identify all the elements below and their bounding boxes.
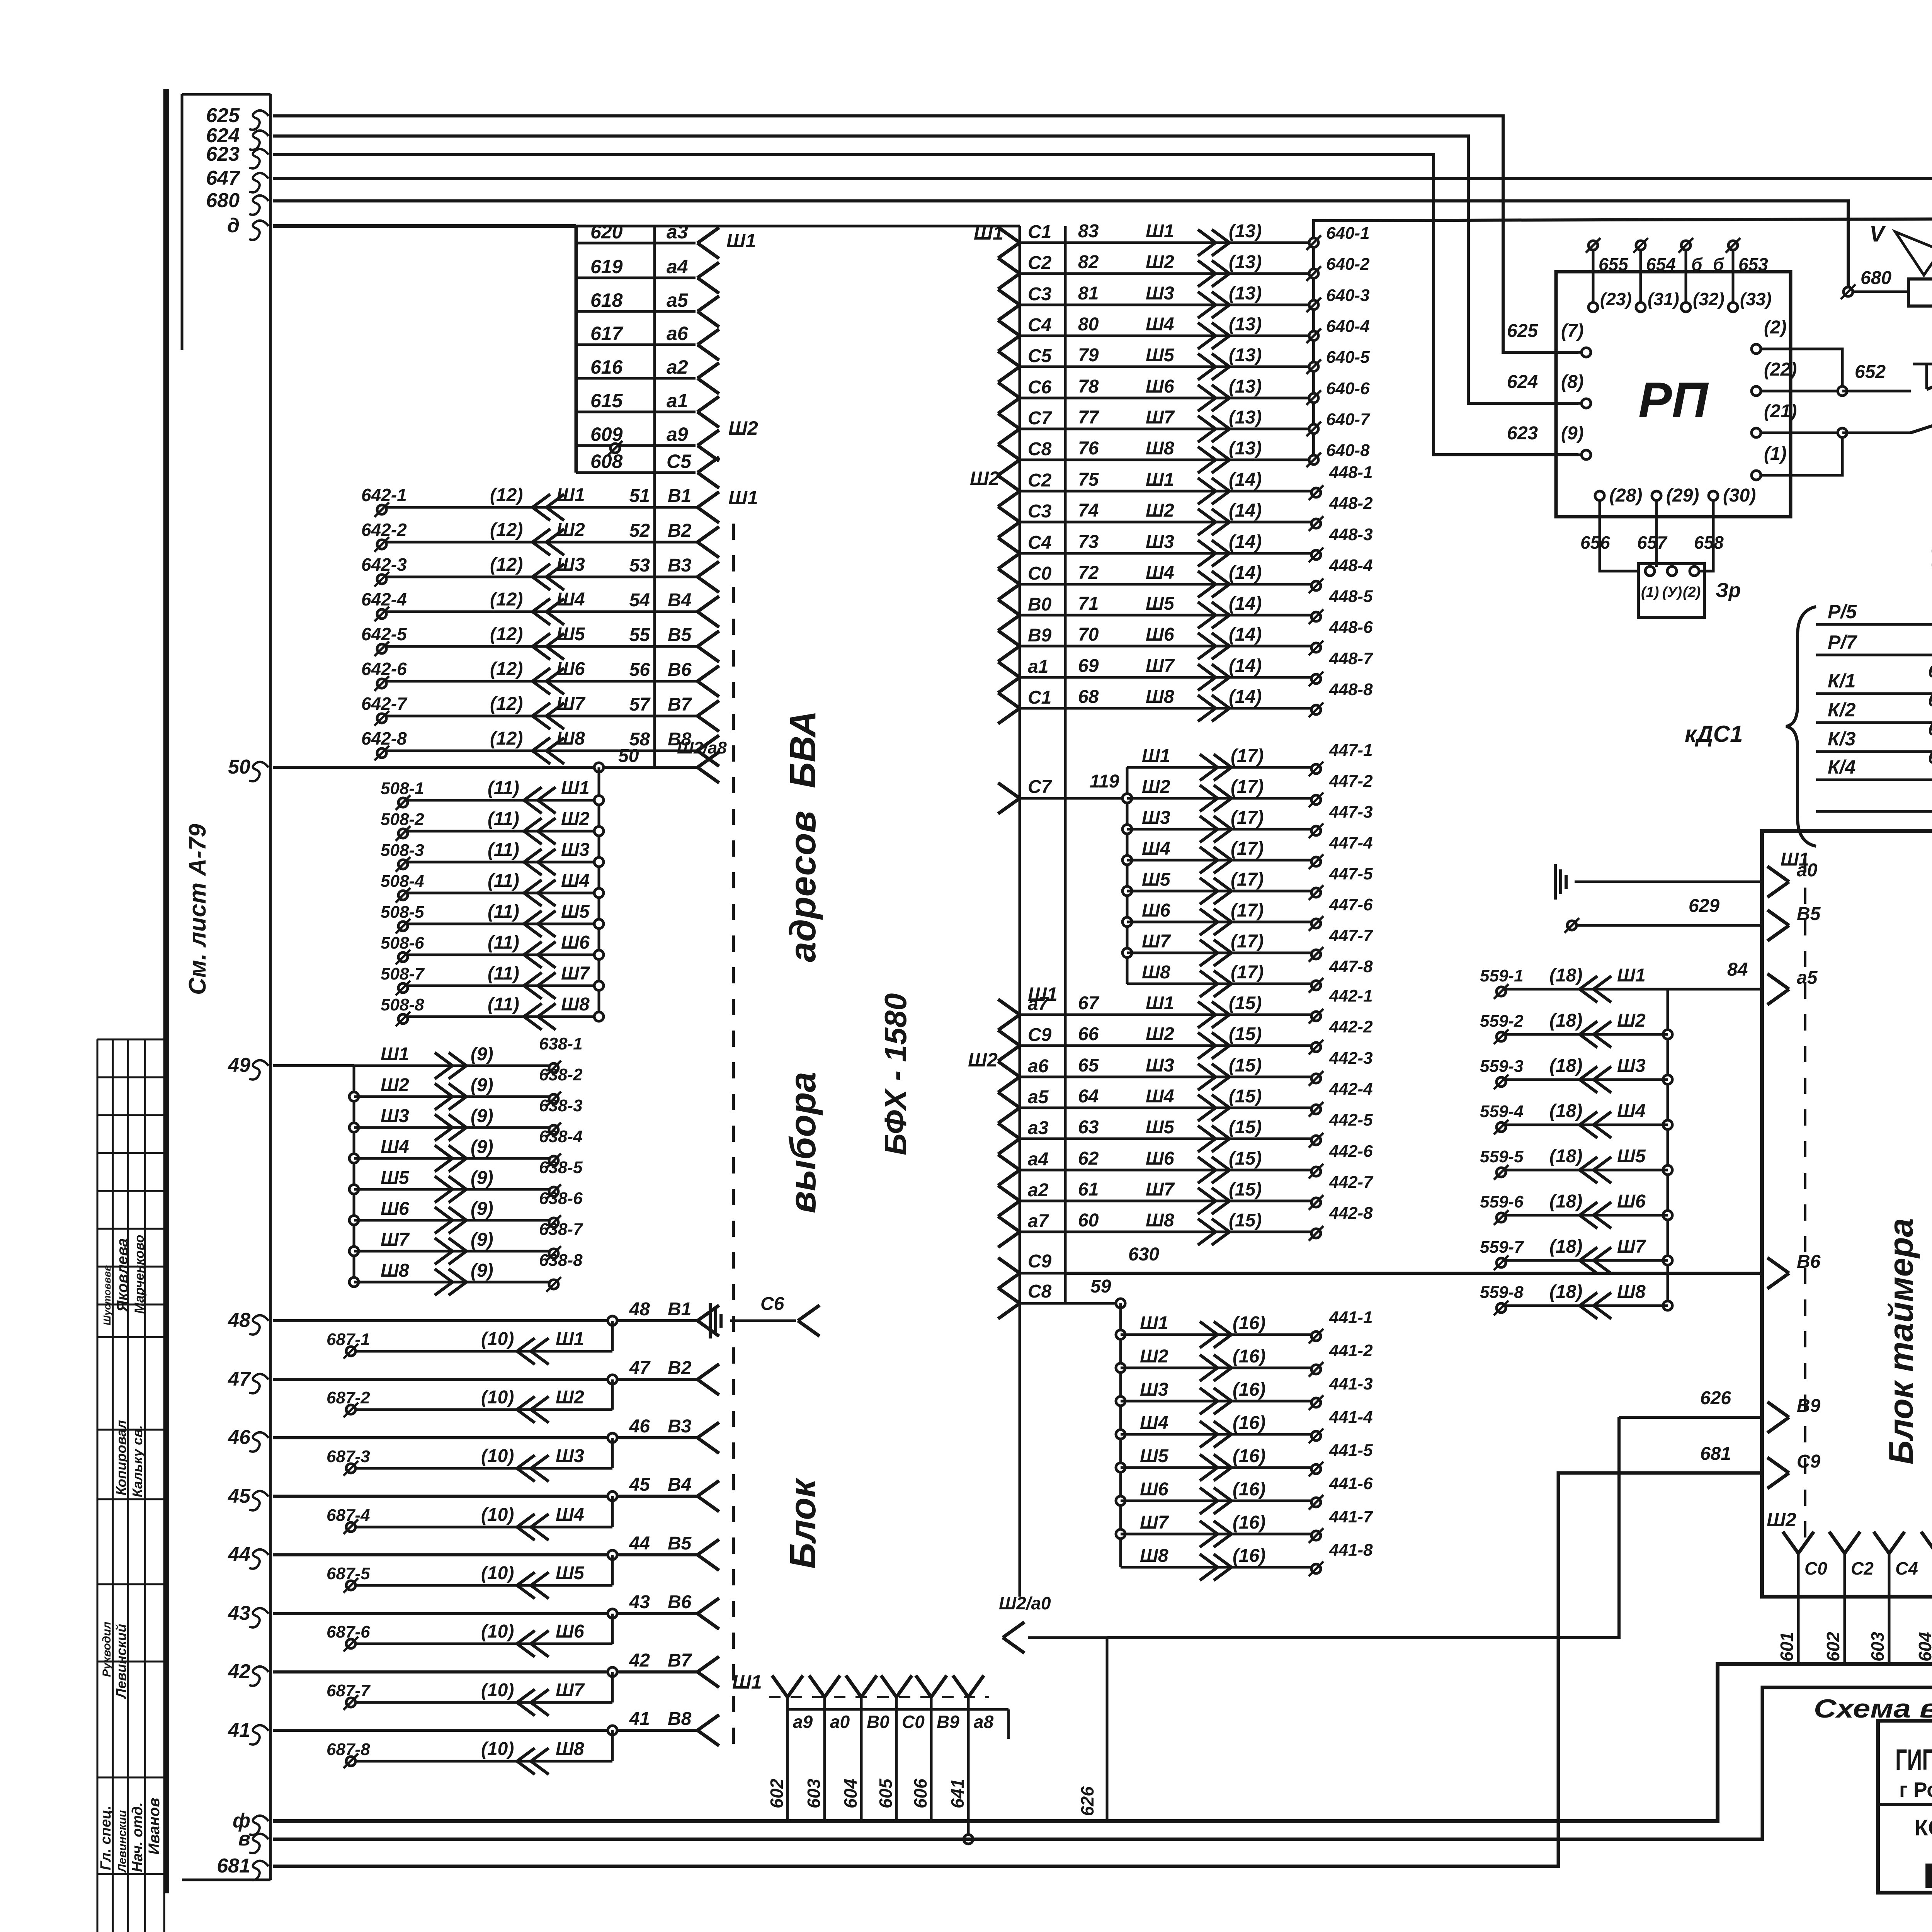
svg-text:Ш5: Ш5 xyxy=(381,1168,410,1188)
wire 647 long xyxy=(273,179,1932,493)
svg-text:624: 624 xyxy=(1507,372,1538,392)
svg-text:653: 653 xyxy=(1738,254,1768,274)
svg-text:79: 79 xyxy=(1078,345,1099,366)
svg-text:(12): (12) xyxy=(490,624,523,645)
svg-text:К/4: К/4 xyxy=(1828,756,1855,778)
svg-text:КОМПРЕССОРНАЯ: КОМПРЕССОРНАЯ xyxy=(1915,1815,1932,1840)
signature table columns xyxy=(97,1039,99,1932)
svg-text:В2: В2 xyxy=(668,1358,692,1378)
svg-text:Ш4: Ш4 xyxy=(1617,1101,1646,1121)
svg-text:выбора: выбора xyxy=(782,1072,823,1213)
row 640-2 C2 xyxy=(998,258,1020,274)
svg-text:Ш2: Ш2 xyxy=(1142,777,1170,797)
svg-text:638-7: 638-7 xyxy=(539,1220,583,1239)
svg-text:Ш4: Ш4 xyxy=(1146,1086,1174,1107)
svg-text:Ш6: Ш6 xyxy=(556,1621,584,1642)
svg-text:(15): (15) xyxy=(1229,993,1262,1014)
svg-text:606: 606 xyxy=(910,1779,930,1808)
svg-text:(14): (14) xyxy=(1229,563,1262,583)
stub а8/641 xyxy=(953,1675,968,1697)
svg-text:508-6: 508-6 xyxy=(381,934,424,952)
svg-text:(11): (11) xyxy=(488,840,519,860)
row 616/а2 xyxy=(576,377,696,380)
svg-text:78: 78 xyxy=(1078,376,1099,397)
svg-text:559-3: 559-3 xyxy=(1480,1057,1524,1076)
svg-text:Ш2: Ш2 xyxy=(1767,1509,1796,1531)
svg-text:623: 623 xyxy=(206,143,240,165)
svg-text:В6: В6 xyxy=(668,1592,692,1612)
svg-text:441-2: 441-2 xyxy=(1329,1341,1373,1360)
stub С0/601 xyxy=(1783,1532,1798,1553)
svg-text:(16): (16) xyxy=(1233,1379,1265,1400)
svg-text:642-8: 642-8 xyxy=(361,728,407,748)
svg-text:С4: С4 xyxy=(1028,532,1051,553)
svg-text:680: 680 xyxy=(206,189,240,212)
svg-text:44: 44 xyxy=(629,1533,650,1554)
bus 508 xyxy=(598,767,600,1016)
bus 447 xyxy=(1126,767,1129,984)
svg-text:642-2: 642-2 xyxy=(361,520,407,540)
row 441-1 xyxy=(1116,1330,1125,1339)
svg-text:Ш1: Ш1 xyxy=(1146,469,1174,490)
row 608/С5 xyxy=(576,471,696,474)
svg-text:638-5: 638-5 xyxy=(539,1158,583,1177)
svg-text:(23): (23) xyxy=(1600,289,1632,309)
svg-text:508-3: 508-3 xyxy=(381,841,424,860)
BTr pin V5 wire 629 xyxy=(1767,910,1789,925)
svg-text:623: 623 xyxy=(1507,423,1538,444)
svg-text:Ш1: Ш1 xyxy=(381,1044,409,1065)
RP right pin (22) xyxy=(1752,386,1761,396)
relay block RP xyxy=(1556,272,1791,517)
RP bottom pin (29) xyxy=(1652,491,1661,500)
svg-text:(17): (17) xyxy=(1231,838,1264,859)
row 615/а1 xyxy=(576,411,696,413)
svg-text:43: 43 xyxy=(228,1602,250,1624)
svg-text:Ш2: Ш2 xyxy=(1617,1010,1646,1031)
svg-text:630: 630 xyxy=(1128,1244,1159,1265)
svg-text:Ш8: Ш8 xyxy=(1617,1282,1646,1302)
svg-text:559-4: 559-4 xyxy=(1480,1102,1524,1121)
RP left pin (9) xyxy=(1582,450,1591,459)
svg-text:442-3: 442-3 xyxy=(1329,1049,1373,1068)
svg-text:508-2: 508-2 xyxy=(381,810,424,829)
svg-text:а4: а4 xyxy=(667,256,688,277)
svg-text:640-1: 640-1 xyxy=(1326,224,1370,243)
svg-text:(13): (13) xyxy=(1229,314,1262,335)
svg-text:Ш1: Ш1 xyxy=(556,485,585,505)
svg-text:(1): (1) xyxy=(1641,584,1659,600)
svg-text:(16): (16) xyxy=(1233,1413,1265,1433)
svg-text:а1: а1 xyxy=(667,390,688,412)
svg-text:(14): (14) xyxy=(1229,687,1262,707)
svg-text:82: 82 xyxy=(1078,252,1099,272)
svg-text:680: 680 xyxy=(1861,268,1891,288)
svg-text:559-8: 559-8 xyxy=(1480,1283,1524,1302)
svg-text:ГИПРОСТРОЙДОРМАШ: ГИПРОСТРОЙДОРМАШ xyxy=(1895,1743,1932,1776)
svg-text:Иванов: Иванов xyxy=(146,1798,163,1855)
row 638-1 xyxy=(354,1065,554,1067)
svg-text:Ш3: Ш3 xyxy=(1142,808,1170,828)
svg-text:626: 626 xyxy=(1077,1786,1097,1816)
stub а9/602 xyxy=(772,1675,787,1697)
svg-text:41: 41 xyxy=(228,1719,250,1742)
svg-text:а5: а5 xyxy=(667,289,689,311)
svg-text:(9): (9) xyxy=(471,1044,493,1065)
svg-text:626: 626 xyxy=(1700,1388,1731,1408)
svg-text:629: 629 xyxy=(1689,896,1719,916)
svg-text:45: 45 xyxy=(629,1475,651,1495)
svg-text:(13): (13) xyxy=(1229,438,1262,459)
wire v xyxy=(273,1687,1932,1839)
svg-text:72: 72 xyxy=(1078,563,1099,583)
svg-text:56: 56 xyxy=(629,660,650,680)
svg-text:С2: С2 xyxy=(1028,253,1052,273)
svg-text:63: 63 xyxy=(1078,1117,1099,1138)
svg-text:Марченково: Марченково xyxy=(132,1235,147,1314)
row 559-8 xyxy=(1663,1301,1672,1310)
row 442-3 xyxy=(998,1061,1020,1077)
row 638-6 xyxy=(349,1216,359,1225)
svg-text:С9: С9 xyxy=(1797,1451,1821,1472)
svg-text:Ш2: Ш2 xyxy=(381,1075,409,1095)
row 447-6 xyxy=(1122,917,1132,927)
svg-text:(10): (10) xyxy=(481,1446,514,1466)
svg-text:50: 50 xyxy=(618,746,639,766)
row 448-1 xyxy=(998,476,1020,491)
stub С4/603 xyxy=(1874,1532,1889,1553)
svg-text:42: 42 xyxy=(629,1650,650,1671)
wire 624 xyxy=(273,136,1578,403)
row 687-3 xyxy=(611,1438,614,1468)
svg-text:Копировал: Копировал xyxy=(113,1420,129,1495)
svg-text:(13): (13) xyxy=(1229,221,1262,241)
svg-text:442-6: 442-6 xyxy=(1329,1142,1373,1161)
svg-text:508-4: 508-4 xyxy=(381,872,424,891)
title block frame xyxy=(1878,1721,1932,1893)
row 447-2 xyxy=(1122,794,1132,803)
svg-text:Ш7: Ш7 xyxy=(556,1680,585,1701)
svg-text:Ш3: Ш3 xyxy=(381,1106,409,1126)
svg-text:(15): (15) xyxy=(1229,1210,1262,1231)
Sh1 stub dashed line xyxy=(769,1696,989,1698)
svg-text:Ш5: Ш5 xyxy=(1140,1446,1169,1466)
block BTr xyxy=(1762,831,1932,1597)
wire d xyxy=(273,224,576,228)
svg-text:448-5: 448-5 xyxy=(1329,587,1373,606)
svg-text:47: 47 xyxy=(228,1368,251,1390)
svg-text:601: 601 xyxy=(1777,1632,1797,1662)
svg-text:448-4: 448-4 xyxy=(1329,556,1373,575)
svg-text:(10): (10) xyxy=(481,1621,514,1642)
svg-text:84: 84 xyxy=(1727,959,1748,980)
svg-text:(12): (12) xyxy=(490,554,523,575)
svg-text:617: 617 xyxy=(590,323,624,344)
svg-text:(11): (11) xyxy=(488,809,519,829)
svg-text:(12): (12) xyxy=(490,659,523,679)
svg-text:БФХ - 1580: БФХ - 1580 xyxy=(878,993,913,1155)
RP top pin 654 xyxy=(1636,241,1645,250)
svg-text:76: 76 xyxy=(1078,438,1099,459)
svg-text:а6: а6 xyxy=(1028,1056,1049,1077)
svg-text:(14): (14) xyxy=(1229,532,1262,552)
row 687-7 xyxy=(611,1672,614,1702)
svg-text:603: 603 xyxy=(1867,1632,1888,1662)
svg-text:В9: В9 xyxy=(937,1712,959,1732)
svg-text:Левинскии: Левинскии xyxy=(116,1810,129,1873)
wire 46 xyxy=(273,1436,697,1439)
svg-text:Блок: Блок xyxy=(782,1478,823,1569)
stub С0/605 xyxy=(881,1675,896,1697)
row 447-3 xyxy=(1122,825,1132,834)
svg-text:690: 690 xyxy=(1928,719,1932,739)
svg-text:РП: РП xyxy=(1638,372,1709,428)
svg-text:(18): (18) xyxy=(1549,1236,1582,1257)
svg-text:В0: В0 xyxy=(1028,594,1052,615)
svg-text:447-2: 447-2 xyxy=(1329,772,1373,791)
svg-text:Ш1: Ш1 xyxy=(728,487,758,509)
RP top pin 653 xyxy=(1728,241,1738,250)
svg-text:447-5: 447-5 xyxy=(1329,864,1373,883)
svg-text:(18): (18) xyxy=(1549,1101,1582,1121)
row 617/а6 xyxy=(576,344,696,346)
svg-text:Ш8: Ш8 xyxy=(561,994,590,1015)
svg-text:640-5: 640-5 xyxy=(1326,348,1370,367)
svg-text:(16): (16) xyxy=(1233,1313,1265,1333)
svg-text:(28): (28) xyxy=(1609,485,1642,506)
svg-text:(13): (13) xyxy=(1229,407,1262,428)
svg-text:В5: В5 xyxy=(668,625,692,645)
svg-text:47: 47 xyxy=(629,1358,651,1378)
svg-text:В5: В5 xyxy=(668,1533,692,1554)
svg-text:Ш7: Ш7 xyxy=(1146,1179,1175,1200)
svg-text:652: 652 xyxy=(1855,362,1886,382)
svg-text:447-1: 447-1 xyxy=(1329,741,1373,760)
row 640-3 C3 xyxy=(998,289,1020,305)
svg-text:В7: В7 xyxy=(668,694,692,715)
svg-text:(12): (12) xyxy=(490,728,523,749)
svg-text:448-3: 448-3 xyxy=(1329,525,1373,544)
svg-text:К/2: К/2 xyxy=(1828,699,1856,721)
svg-text:(9): (9) xyxy=(471,1168,493,1188)
svg-text:С5: С5 xyxy=(1028,346,1052,366)
svg-text:638-8: 638-8 xyxy=(539,1251,583,1270)
svg-text:654: 654 xyxy=(1646,254,1676,274)
row 441-8 xyxy=(1121,1566,1312,1569)
svg-text:638-4: 638-4 xyxy=(539,1127,583,1146)
svg-text:508-7: 508-7 xyxy=(381,964,425,983)
svg-text:48: 48 xyxy=(228,1309,250,1332)
svg-text:(18): (18) xyxy=(1549,965,1582,986)
svg-text:640-7: 640-7 xyxy=(1326,410,1371,429)
svg-text:В6: В6 xyxy=(668,660,692,680)
svg-text:Ш3: Ш3 xyxy=(1146,1055,1174,1076)
svg-text:(14): (14) xyxy=(1229,594,1262,614)
svg-text:Ш5: Ш5 xyxy=(1146,594,1175,614)
svg-text:Ш2: Ш2 xyxy=(1140,1346,1168,1367)
wire f xyxy=(273,1664,1932,1821)
svg-text:(13): (13) xyxy=(1229,283,1262,304)
svg-text:642-1: 642-1 xyxy=(361,485,407,505)
svg-text:Ш8: Ш8 xyxy=(1142,962,1170,983)
svg-text:681: 681 xyxy=(1700,1444,1731,1464)
wire 49 xyxy=(273,1064,354,1067)
svg-text:В7: В7 xyxy=(668,1650,692,1671)
svg-text:(13): (13) xyxy=(1229,252,1262,272)
svg-text:687-5: 687-5 xyxy=(327,1564,370,1583)
svg-text:647: 647 xyxy=(206,167,240,189)
svg-text:(10): (10) xyxy=(481,1563,514,1583)
svg-text:С6: С6 xyxy=(1028,377,1052,398)
svg-text:Ш7: Ш7 xyxy=(1140,1512,1169,1533)
svg-text:53: 53 xyxy=(629,555,650,576)
BTr pin a5 wire 84 xyxy=(1767,974,1789,989)
row C7/119 xyxy=(998,783,1020,798)
svg-text:640-3: 640-3 xyxy=(1326,286,1370,305)
svg-text:Блок таймера: Блок таймера xyxy=(1882,1218,1920,1464)
svg-text:66: 66 xyxy=(1078,1024,1099,1044)
svg-text:65: 65 xyxy=(1078,1055,1099,1076)
svg-text:Ш2: Ш2 xyxy=(1146,500,1174,521)
svg-text:(18): (18) xyxy=(1549,1282,1582,1302)
svg-text:а8: а8 xyxy=(974,1712,994,1732)
svg-text:(17): (17) xyxy=(1231,962,1264,983)
svg-text:61: 61 xyxy=(1078,1179,1099,1200)
svg-text:Зр: Зр xyxy=(1716,579,1741,602)
svg-text:687-7: 687-7 xyxy=(327,1681,371,1700)
svg-text:45: 45 xyxy=(228,1485,251,1507)
wire 50 xyxy=(273,766,697,769)
svg-text:625: 625 xyxy=(206,104,240,127)
svg-text:Гл. спец.: Гл. спец. xyxy=(98,1806,114,1870)
svg-text:656: 656 xyxy=(1580,532,1610,553)
row 640-7 C7 xyxy=(998,413,1020,429)
svg-text:447-6: 447-6 xyxy=(1329,895,1373,914)
svg-text:(31): (31) xyxy=(1648,289,1679,309)
svg-text:619: 619 xyxy=(590,256,623,277)
wire 625 xyxy=(273,116,1578,352)
svg-text:(12): (12) xyxy=(490,485,523,505)
svg-text:(10): (10) xyxy=(481,1329,514,1349)
svg-text:(10): (10) xyxy=(481,1387,514,1408)
row 638-8 xyxy=(349,1277,359,1287)
svg-text:625: 625 xyxy=(1507,321,1538,341)
input label box bottom xyxy=(182,1879,270,1881)
svg-text:Ш6: Ш6 xyxy=(381,1199,409,1219)
row 559-6 xyxy=(1663,1211,1672,1220)
svg-text:Ш2/а8: Ш2/а8 xyxy=(677,738,727,757)
BTr pin C9 wire 681 xyxy=(1767,1458,1789,1473)
svg-text:(15): (15) xyxy=(1229,1055,1262,1076)
row 619/а4 xyxy=(576,277,696,279)
svg-text:688: 688 xyxy=(1928,661,1932,681)
svg-text:448-6: 448-6 xyxy=(1329,618,1373,637)
svg-text:51: 51 xyxy=(629,486,650,506)
svg-text:71: 71 xyxy=(1078,594,1099,614)
svg-text:Нач. отд.: Нач. отд. xyxy=(129,1802,146,1872)
svg-text:559-1: 559-1 xyxy=(1480,966,1524,985)
row C8/59 xyxy=(998,1288,1020,1303)
row 559-2 xyxy=(1663,1030,1672,1039)
meter G body xyxy=(1853,291,1908,293)
svg-text:57: 57 xyxy=(629,694,651,715)
row 559-1 xyxy=(1505,988,1668,991)
svg-text:(21): (21) xyxy=(1764,401,1797,422)
svg-text:642-7: 642-7 xyxy=(361,694,408,714)
svg-text:Ш2: Ш2 xyxy=(1146,1024,1174,1044)
svg-text:655: 655 xyxy=(1599,254,1629,274)
svg-text:Ш6: Ш6 xyxy=(1146,376,1174,397)
svg-text:кДС1: кДС1 xyxy=(1685,721,1743,747)
row 638-2 xyxy=(349,1092,359,1101)
svg-text:Шустовввв: Шустовввв xyxy=(101,1265,113,1325)
row 441-7 xyxy=(1116,1529,1125,1539)
svg-text:Ш1: Ш1 xyxy=(1140,1313,1168,1333)
svg-text:Ш5: Ш5 xyxy=(561,901,590,922)
svg-text:С9: С9 xyxy=(1028,1025,1052,1045)
svg-text:46: 46 xyxy=(228,1426,251,1449)
svg-text:(16): (16) xyxy=(1233,1512,1265,1533)
svg-text:(У): (У) xyxy=(1662,584,1682,600)
svg-text:(29): (29) xyxy=(1666,485,1699,506)
stub cell divider xyxy=(1007,1709,1010,1739)
svg-text:(30): (30) xyxy=(1723,485,1756,506)
svg-text:441-6: 441-6 xyxy=(1329,1474,1373,1493)
connector boundary dashed xyxy=(732,524,735,1754)
svg-text:(10): (10) xyxy=(481,1739,514,1759)
svg-text:(2): (2) xyxy=(1764,317,1787,338)
row 687-2 xyxy=(611,1379,614,1410)
RP right pin (1) xyxy=(1752,471,1761,480)
svg-text:Ш7: Ш7 xyxy=(1617,1236,1646,1257)
svg-text:б: б xyxy=(1691,254,1703,274)
RP right pin (2) xyxy=(1752,344,1761,354)
row 447-1 xyxy=(1127,766,1312,769)
row 441-3 xyxy=(1116,1396,1125,1406)
wire 42 xyxy=(273,1670,697,1673)
svg-text:Ш6: Ш6 xyxy=(1146,1148,1174,1169)
svg-text:а6: а6 xyxy=(667,323,689,344)
svg-text:Ш8: Ш8 xyxy=(556,728,585,749)
svg-text:Ш4: Ш4 xyxy=(381,1137,409,1157)
table 620 top border xyxy=(576,225,1020,228)
table 620 letter column xyxy=(653,226,656,767)
svg-text:Ш1: Ш1 xyxy=(974,222,1003,244)
svg-text:БК-250А: БК-250А xyxy=(1922,1856,1932,1896)
svg-text:Ш2/а0: Ш2/а0 xyxy=(999,1593,1051,1613)
svg-text:687-4: 687-4 xyxy=(327,1506,370,1525)
svg-text:(11): (11) xyxy=(488,963,519,984)
svg-text:а0: а0 xyxy=(1797,860,1818,881)
svg-text:620: 620 xyxy=(590,221,623,243)
svg-text:в: в xyxy=(238,1828,250,1850)
wire 681 xyxy=(273,1473,1760,1866)
svg-text:Яковлева: Яковлева xyxy=(114,1238,131,1312)
svg-text:С5: С5 xyxy=(667,451,692,472)
svg-text:508-5: 508-5 xyxy=(381,903,424,922)
svg-text:442-7: 442-7 xyxy=(1329,1173,1374,1192)
stub В0/604 xyxy=(846,1675,861,1697)
row 448-6 xyxy=(998,631,1020,646)
svg-text:Ш1: Ш1 xyxy=(726,230,756,252)
Sh1 stub cell top xyxy=(787,1708,1009,1711)
svg-text:В8: В8 xyxy=(668,1709,692,1729)
svg-text:а9: а9 xyxy=(667,423,688,445)
row 559-5 xyxy=(1663,1165,1672,1175)
svg-text:(9): (9) xyxy=(471,1199,493,1219)
svg-text:Ш2: Ш2 xyxy=(970,468,1000,489)
svg-text:(14): (14) xyxy=(1229,656,1262,676)
